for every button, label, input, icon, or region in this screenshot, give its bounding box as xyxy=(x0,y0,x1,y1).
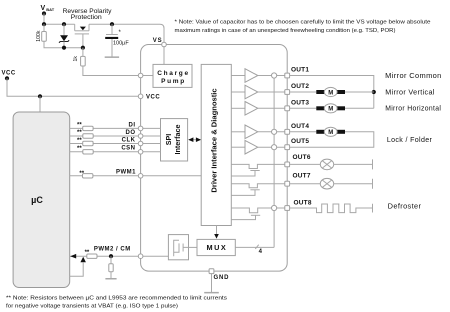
svg-text:Charge: Charge xyxy=(157,70,190,77)
svg-text:CSN: CSN xyxy=(121,146,135,152)
svg-text:M: M xyxy=(328,107,333,113)
svg-text:MUX: MUX xyxy=(207,243,228,252)
svg-text:M: M xyxy=(328,90,333,96)
svg-text:OUT8: OUT8 xyxy=(294,200,312,207)
svg-text:for negative voltage transient: for negative voltage transients at VBAT … xyxy=(6,304,178,310)
svg-text:GND: GND xyxy=(214,275,230,281)
svg-text:OUT7: OUT7 xyxy=(293,173,311,180)
svg-text:OUT1: OUT1 xyxy=(291,67,309,74)
svg-text:VCC: VCC xyxy=(146,94,160,100)
svg-text:**: ** xyxy=(77,138,82,144)
svg-text:DO: DO xyxy=(126,130,136,136)
svg-text:µC: µC xyxy=(31,195,43,205)
svg-text:PWM2 / CM: PWM2 / CM xyxy=(94,246,131,252)
svg-text:PWM1: PWM1 xyxy=(116,170,136,176)
svg-text:Driver Interface & Diagnostic: Driver Interface & Diagnostic xyxy=(209,88,218,192)
svg-text:* Note: Value of capacitor has: * Note: Value of capacitor has to be cho… xyxy=(175,19,431,25)
svg-text:1k: 1k xyxy=(73,56,79,62)
svg-text:Mirror Vertical: Mirror Vertical xyxy=(385,87,435,96)
svg-text:VS: VS xyxy=(153,38,163,44)
svg-text:** Note: Resistors between µC: ** Note: Resistors between µC and L9953 … xyxy=(6,296,227,302)
svg-text:VCC: VCC xyxy=(2,71,16,77)
svg-text:OUT5: OUT5 xyxy=(291,138,309,145)
svg-text:Protection: Protection xyxy=(71,14,102,21)
svg-text:DI: DI xyxy=(129,122,136,128)
svg-text:Lock / Folder: Lock / Folder xyxy=(387,135,433,144)
svg-text:Mirror Common: Mirror Common xyxy=(385,71,442,80)
svg-text:Interface: Interface xyxy=(173,125,182,155)
svg-text:Mirror Horizontal: Mirror Horizontal xyxy=(385,104,441,113)
svg-text:**: ** xyxy=(77,146,82,152)
svg-text:**: ** xyxy=(85,250,90,256)
svg-text:V: V xyxy=(41,5,46,12)
svg-text:Defroster: Defroster xyxy=(388,201,422,210)
svg-text:OUT3: OUT3 xyxy=(291,99,309,106)
svg-text:**: ** xyxy=(79,171,84,177)
svg-text:CLK: CLK xyxy=(122,137,136,143)
svg-text:OUT6: OUT6 xyxy=(293,154,311,161)
svg-text:OUT4: OUT4 xyxy=(291,123,309,130)
svg-text:Pump: Pump xyxy=(161,78,186,85)
svg-text:M: M xyxy=(328,130,333,136)
svg-text:maximum ratings in case of an: maximum ratings in case of an unexpected… xyxy=(175,28,396,34)
svg-text:**: ** xyxy=(77,130,82,136)
svg-text:OUT2: OUT2 xyxy=(291,83,309,90)
svg-text:100k: 100k xyxy=(36,30,42,42)
svg-text:**: ** xyxy=(77,123,82,129)
svg-text:100µF: 100µF xyxy=(113,40,129,46)
svg-text:BAT: BAT xyxy=(46,7,54,12)
